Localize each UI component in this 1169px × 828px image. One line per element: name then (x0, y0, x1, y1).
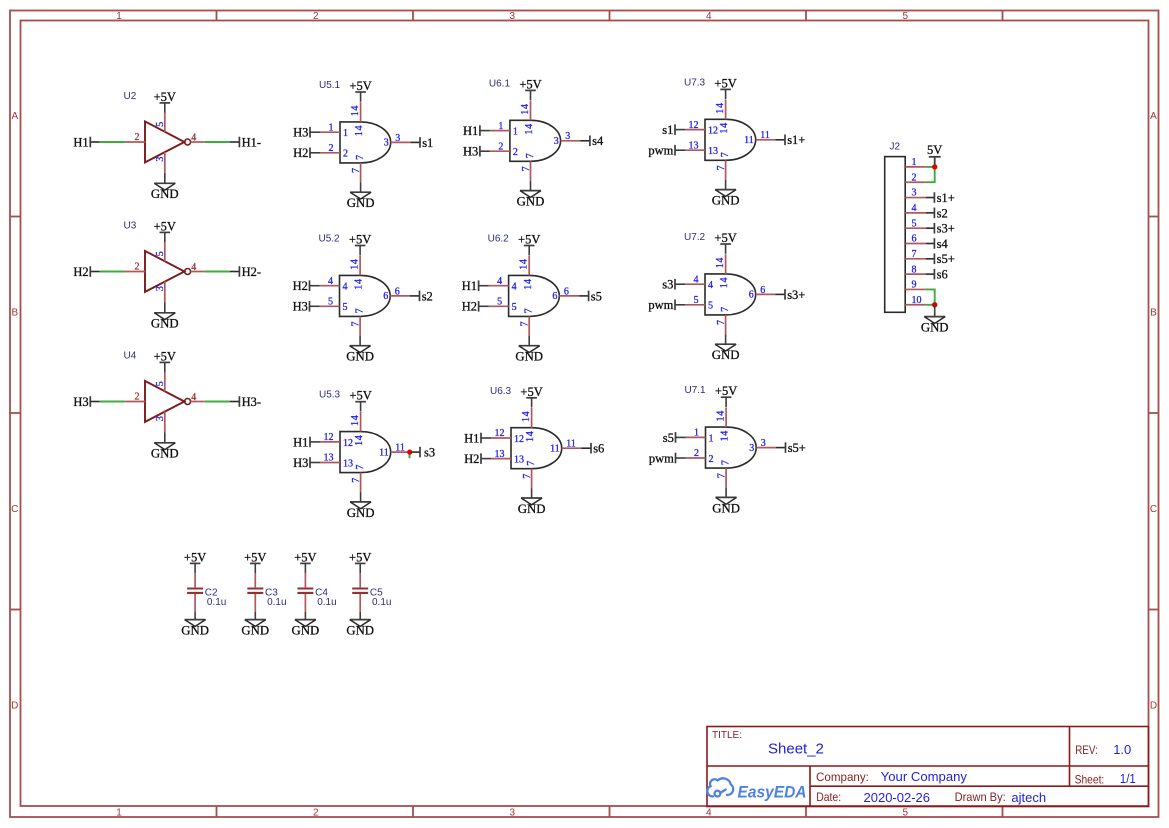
svg-text:A: A (11, 111, 18, 122)
svg-text:s6: s6 (593, 442, 604, 456)
svg-text:3: 3 (155, 157, 166, 162)
svg-text:Sheet:: Sheet: (1075, 772, 1105, 786)
svg-text:1.0: 1.0 (1113, 742, 1131, 757)
svg-text:H3: H3 (73, 395, 88, 409)
svg-text:7: 7 (521, 166, 532, 171)
svg-text:1: 1 (116, 807, 122, 818)
svg-text:5: 5 (155, 251, 166, 256)
svg-text:14: 14 (719, 277, 730, 288)
svg-text:GND: GND (151, 317, 179, 331)
svg-text:2020-02-26: 2020-02-26 (864, 790, 931, 805)
svg-text:5: 5 (512, 302, 517, 313)
svg-text:H1: H1 (464, 431, 479, 445)
svg-text:Sheet_2: Sheet_2 (768, 741, 824, 758)
svg-text:14: 14 (354, 125, 365, 136)
svg-text:0.1u: 0.1u (317, 597, 336, 608)
svg-text:pwm: pwm (648, 298, 673, 312)
svg-text:U7.2: U7.2 (684, 232, 706, 243)
svg-text:7: 7 (520, 322, 531, 327)
svg-text:H2: H2 (464, 452, 479, 466)
svg-text:14: 14 (525, 431, 536, 442)
svg-text:U4: U4 (124, 350, 137, 361)
svg-text:14: 14 (523, 278, 534, 289)
svg-text:2: 2 (709, 454, 714, 465)
svg-text:+5V: +5V (715, 384, 737, 398)
svg-text:4: 4 (328, 276, 333, 287)
svg-text:5: 5 (903, 11, 909, 22)
svg-text:GND: GND (292, 624, 320, 638)
svg-text:1: 1 (498, 121, 503, 132)
svg-text:4: 4 (706, 11, 712, 22)
svg-text:A: A (1150, 111, 1157, 122)
svg-text:6: 6 (912, 234, 917, 245)
svg-text:3: 3 (395, 133, 400, 144)
svg-text:s4: s4 (592, 134, 604, 148)
svg-text:Company:: Company: (816, 770, 869, 784)
svg-text:14: 14 (354, 434, 365, 445)
svg-text:H3: H3 (463, 145, 478, 159)
svg-text:s1+: s1+ (787, 133, 805, 147)
svg-text:3: 3 (565, 131, 570, 142)
svg-text:+5V: +5V (154, 349, 176, 363)
svg-text:+5V: +5V (349, 389, 371, 403)
svg-text:7: 7 (716, 165, 727, 170)
svg-text:1: 1 (329, 122, 334, 133)
svg-text:14: 14 (524, 123, 535, 134)
svg-text:H1: H1 (73, 135, 88, 149)
svg-text:H1: H1 (463, 124, 478, 138)
svg-text:s5+: s5+ (937, 252, 955, 266)
svg-text:Your Company: Your Company (881, 769, 968, 784)
svg-text:5: 5 (497, 297, 502, 308)
svg-text:+5V: +5V (520, 385, 542, 399)
svg-text:13: 13 (343, 458, 353, 469)
svg-text:7: 7 (912, 249, 917, 260)
svg-text:1: 1 (709, 433, 714, 444)
svg-text:U5.2: U5.2 (319, 234, 341, 245)
svg-text:+5V: +5V (154, 219, 176, 233)
svg-text:2: 2 (135, 132, 140, 143)
svg-text:s3: s3 (662, 278, 673, 292)
svg-text:14: 14 (521, 411, 532, 422)
svg-text:3: 3 (155, 286, 166, 291)
svg-text:4: 4 (706, 807, 712, 818)
svg-text:2: 2 (135, 262, 140, 273)
svg-text:0.1u: 0.1u (267, 597, 286, 608)
svg-text:GND: GND (712, 348, 740, 362)
svg-text:2: 2 (313, 11, 319, 22)
svg-text:D: D (1150, 701, 1157, 712)
svg-text:11: 11 (550, 443, 560, 454)
svg-text:GND: GND (181, 624, 209, 638)
svg-text:3: 3 (912, 188, 917, 199)
svg-text:7: 7 (720, 307, 731, 312)
svg-text:U6.2: U6.2 (488, 234, 510, 245)
svg-text:13: 13 (708, 146, 718, 157)
svg-text:7: 7 (355, 465, 366, 470)
svg-text:GND: GND (347, 196, 375, 210)
svg-text:3: 3 (155, 416, 166, 421)
svg-text:+5V: +5V (244, 550, 266, 564)
svg-text:B: B (1150, 308, 1157, 319)
svg-text:7: 7 (351, 168, 362, 173)
svg-text:H3: H3 (293, 300, 308, 314)
svg-text:0.1u: 0.1u (372, 597, 391, 608)
svg-text:11: 11 (566, 439, 576, 450)
svg-text:12: 12 (343, 438, 353, 449)
svg-text:4: 4 (191, 133, 196, 144)
svg-text:U7.1: U7.1 (685, 385, 707, 396)
svg-text:14: 14 (350, 105, 361, 116)
svg-text:12: 12 (689, 120, 699, 131)
svg-text:H3: H3 (293, 126, 308, 140)
svg-text:C: C (11, 504, 18, 515)
svg-text:3: 3 (761, 438, 766, 449)
svg-text:5: 5 (155, 381, 166, 386)
svg-text:GND: GND (241, 624, 269, 638)
svg-text:4: 4 (708, 280, 713, 291)
svg-text:s3+: s3+ (787, 288, 805, 302)
svg-text:+5V: +5V (349, 550, 371, 564)
svg-text:2: 2 (513, 147, 518, 158)
svg-text:7: 7 (350, 322, 361, 327)
svg-text:1/1: 1/1 (1120, 771, 1136, 786)
svg-text:7: 7 (355, 308, 366, 313)
svg-text:GND: GND (517, 195, 545, 209)
svg-text:U3: U3 (124, 220, 137, 231)
svg-text:14: 14 (350, 415, 361, 426)
svg-text:14: 14 (715, 410, 726, 421)
svg-text:+5V: +5V (184, 550, 206, 564)
svg-text:+5V: +5V (294, 550, 316, 564)
svg-text:3: 3 (749, 443, 754, 454)
svg-text:2: 2 (329, 143, 334, 154)
svg-text:+5V: +5V (154, 90, 176, 104)
svg-text:7: 7 (526, 461, 537, 466)
svg-text:U7.3: U7.3 (684, 77, 706, 88)
svg-text:13: 13 (495, 449, 505, 460)
svg-text:14: 14 (349, 258, 360, 269)
svg-text:3: 3 (554, 136, 559, 147)
svg-text:9: 9 (912, 280, 917, 291)
svg-text:B: B (11, 308, 18, 319)
svg-text:5V: 5V (927, 143, 942, 157)
svg-text:12: 12 (324, 432, 334, 443)
svg-text:13: 13 (324, 453, 334, 464)
svg-text:13: 13 (514, 455, 524, 466)
svg-text:1: 1 (694, 428, 699, 439)
svg-text:s4: s4 (937, 237, 949, 251)
svg-text:4: 4 (191, 392, 196, 403)
svg-text:s6: s6 (937, 268, 948, 282)
svg-text:s5: s5 (663, 431, 674, 445)
svg-text:6: 6 (749, 290, 754, 301)
svg-text:2: 2 (912, 172, 917, 183)
svg-text:s1: s1 (662, 123, 673, 137)
svg-text:4: 4 (191, 262, 196, 273)
svg-text:2: 2 (135, 392, 140, 403)
svg-text:H2: H2 (293, 279, 308, 293)
svg-text:3: 3 (384, 138, 389, 149)
svg-text:+5V: +5V (714, 76, 736, 90)
svg-text:s5+: s5+ (788, 441, 806, 455)
svg-text:U5.1: U5.1 (319, 80, 341, 91)
svg-text:s3+: s3+ (937, 222, 955, 236)
svg-text:s2: s2 (422, 289, 433, 303)
svg-text:13: 13 (689, 140, 699, 151)
svg-text:6: 6 (383, 291, 388, 302)
svg-text:+5V: +5V (349, 79, 371, 93)
svg-text:1: 1 (116, 11, 122, 22)
svg-text:12: 12 (514, 434, 524, 445)
svg-text:14: 14 (715, 102, 726, 113)
svg-text:5: 5 (328, 297, 333, 308)
svg-text:s2: s2 (937, 206, 948, 220)
svg-text:TITLE:: TITLE: (712, 730, 742, 741)
svg-text:H1-: H1- (242, 135, 261, 149)
svg-text:11: 11 (379, 447, 389, 458)
svg-text:GND: GND (515, 350, 543, 364)
svg-text:H3: H3 (293, 456, 308, 470)
svg-text:11: 11 (395, 443, 405, 454)
svg-text:5: 5 (694, 295, 699, 306)
svg-text:Date:: Date: (816, 790, 841, 804)
svg-text:H2: H2 (293, 146, 308, 160)
svg-text:GND: GND (712, 501, 740, 515)
svg-text:3: 3 (510, 807, 516, 818)
svg-text:GND: GND (712, 194, 740, 208)
svg-text:s5: s5 (591, 289, 602, 303)
svg-text:EasyEDA: EasyEDA (738, 783, 807, 801)
svg-text:GND: GND (151, 187, 179, 201)
svg-text:REV:: REV: (1075, 743, 1098, 757)
svg-text:s1+: s1+ (937, 191, 955, 205)
svg-text:U2: U2 (124, 91, 137, 102)
svg-text:GND: GND (346, 350, 374, 364)
svg-text:14: 14 (519, 258, 530, 269)
svg-text:4: 4 (343, 282, 348, 293)
svg-text:14: 14 (354, 278, 365, 289)
svg-text:H1: H1 (293, 435, 308, 449)
svg-text:10: 10 (912, 295, 922, 306)
svg-text:ajtech: ajtech (1011, 790, 1046, 805)
svg-text:14: 14 (715, 257, 726, 268)
svg-text:+5V: +5V (519, 77, 541, 91)
svg-text:2: 2 (498, 141, 503, 152)
svg-text:+5V: +5V (714, 231, 736, 245)
svg-text:U6.3: U6.3 (490, 386, 512, 397)
svg-text:4: 4 (512, 282, 517, 293)
svg-text:2: 2 (313, 807, 319, 818)
svg-text:Drawn By:: Drawn By: (955, 790, 1006, 804)
svg-text:H1: H1 (462, 279, 477, 293)
svg-text:GND: GND (347, 506, 375, 520)
svg-text:6: 6 (395, 286, 400, 297)
svg-text:H3-: H3- (242, 395, 261, 409)
svg-text:GND: GND (518, 502, 546, 516)
svg-text:1: 1 (912, 157, 917, 168)
svg-text:pwm: pwm (649, 451, 674, 465)
svg-text:4: 4 (497, 276, 502, 287)
svg-text:1: 1 (513, 127, 518, 138)
svg-text:H2: H2 (462, 300, 477, 314)
svg-text:14: 14 (520, 103, 531, 114)
svg-text:14: 14 (719, 122, 730, 133)
svg-text:C: C (1150, 504, 1157, 515)
svg-text:5: 5 (903, 807, 909, 818)
svg-text:7: 7 (355, 155, 366, 160)
svg-text:GND: GND (346, 624, 374, 638)
svg-text:pwm: pwm (648, 144, 673, 158)
svg-text:5: 5 (912, 218, 917, 229)
svg-text:2: 2 (343, 149, 348, 160)
svg-text:7: 7 (716, 473, 727, 478)
svg-text:0.1u: 0.1u (207, 597, 226, 608)
svg-text:14: 14 (720, 430, 731, 441)
svg-text:7: 7 (721, 460, 732, 465)
svg-text:7: 7 (524, 308, 535, 313)
svg-text:U5.3: U5.3 (319, 390, 341, 401)
svg-text:7: 7 (716, 320, 727, 325)
svg-text:7: 7 (720, 152, 731, 157)
svg-text:7: 7 (351, 478, 362, 483)
svg-text:D: D (11, 701, 18, 712)
svg-text:7: 7 (522, 474, 533, 479)
svg-text:4: 4 (694, 274, 699, 285)
svg-text:GND: GND (151, 447, 179, 461)
svg-text:11: 11 (760, 130, 770, 141)
svg-text:2: 2 (694, 448, 699, 459)
svg-text:6: 6 (760, 285, 765, 296)
svg-text:GND: GND (921, 321, 949, 335)
svg-text:5: 5 (708, 301, 713, 312)
svg-text:H2: H2 (73, 265, 88, 279)
svg-text:12: 12 (708, 126, 718, 137)
svg-text:6: 6 (564, 286, 569, 297)
svg-text:5: 5 (155, 122, 166, 127)
svg-text:4: 4 (912, 203, 917, 214)
svg-text:11: 11 (744, 135, 754, 146)
svg-text:1: 1 (343, 128, 348, 139)
svg-text:+5V: +5V (349, 233, 371, 247)
svg-text:s3: s3 (424, 446, 435, 460)
svg-text:+5V: +5V (518, 233, 540, 247)
svg-text:8: 8 (912, 264, 917, 275)
svg-text:H2-: H2- (242, 265, 261, 279)
svg-text:12: 12 (495, 428, 505, 439)
svg-text:5: 5 (343, 302, 348, 313)
svg-text:U6.1: U6.1 (489, 78, 511, 89)
svg-text:s1: s1 (422, 136, 433, 150)
svg-text:J2: J2 (890, 142, 901, 153)
svg-text:3: 3 (510, 11, 516, 22)
svg-text:7: 7 (525, 153, 536, 158)
svg-text:6: 6 (552, 291, 557, 302)
